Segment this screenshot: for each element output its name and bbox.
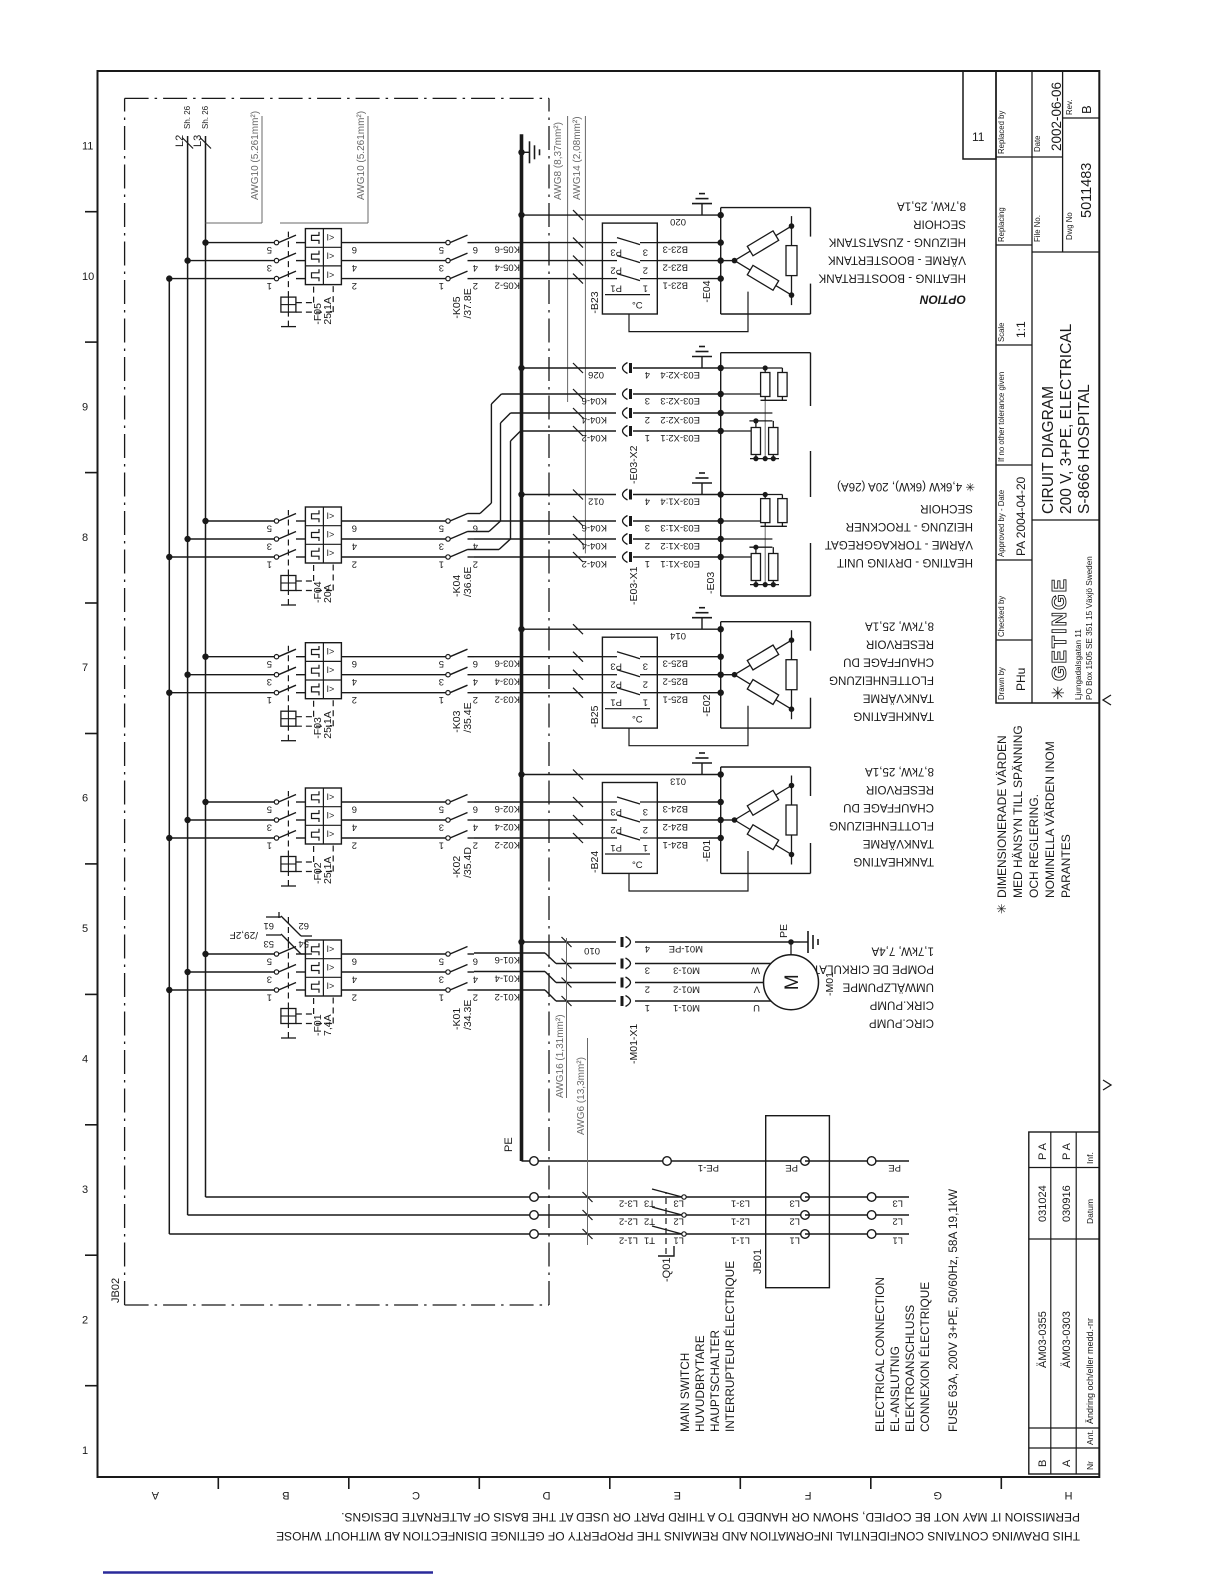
fold mark chevron lower-right [1103,695,1111,705]
wires breaker to contactor K03 [341,657,446,693]
revision table outline [1029,1132,1100,1474]
svg-text:/36.6E: /36.6E [462,567,474,597]
breaker F02 overload block [305,788,341,844]
wire label AWG6 with leader [576,1038,588,1245]
svg-text:K02-4: K02-4 [495,821,520,832]
svg-text:Scale: Scale [997,322,1006,342]
breaker F05 output numbers 2 4 6 [352,244,357,291]
svg-text:P A: P A [1037,1142,1049,1160]
svg-text:Ant.: Ant. [1085,1430,1095,1445]
svg-text:✳ 4,6kW (6kW), 20A (26A): ✳ 4,6kW (6kW), 20A (26A) [837,480,975,493]
svg-text:PA 2004-04-20: PA 2004-04-20 [1014,477,1028,556]
contactor K03 contacts [446,649,474,695]
svg-text:3: 3 [439,676,444,687]
svg-text:1: 1 [439,992,444,1003]
svg-text:E03-X1:2: E03-X1:2 [660,540,700,551]
svg-text:CHAUFFAGE DU: CHAUFFAGE DU [843,801,934,814]
svg-text:Replaced by: Replaced by [997,111,1006,154]
svg-text:Ljungadalsgatan 11: Ljungadalsgatan 11 [1074,629,1083,700]
svg-text:E03-X2:3: E03-X2:3 [660,395,700,406]
svg-text:7,4A: 7,4A [322,1014,334,1036]
wire labels K03-2 -4 -6 [495,658,520,705]
svg-text:AWG14 (2,08mm²): AWG14 (2,08mm²) [572,116,583,200]
motor PE wire [635,924,800,955]
bus tap dots K03 [166,654,209,696]
label -F02 25,1A [312,857,334,884]
svg-text:K03-4: K03-4 [495,676,520,687]
svg-text:2: 2 [352,280,357,291]
svg-text:PO Box 1505 SE 351 15 Växjö Sw: PO Box 1505 SE 351 15 Växjö Sweden [1085,556,1094,700]
wires breaker to contactor K04 [341,521,446,557]
contactor K01 numbers 2 4 6 [473,956,478,1003]
svg-text:RESERVOIR: RESERVOIR [866,783,934,796]
svg-text:4: 4 [352,541,357,552]
breaker F04 overload block [305,507,341,563]
svg-text:2: 2 [352,992,357,1003]
svg-text:6: 6 [82,793,88,805]
svg-text:PE: PE [888,1162,901,1173]
svg-text:1: 1 [645,1002,650,1013]
svg-text:OPTION: OPTION [920,293,966,307]
svg-text:014: 014 [670,630,686,641]
wire labels L1-2 L2-2 L3-2 [619,1198,638,1246]
thermostat -B24 internals [602,797,657,871]
svg-text:5: 5 [267,244,272,255]
svg-text:M01-3: M01-3 [673,965,700,976]
svg-text:K01-4: K01-4 [495,973,520,984]
breaker F02 contact numbers 1 3 5 [267,804,272,851]
svg-text:P3: P3 [610,806,622,817]
svg-text:AWG10 (5.261mm²): AWG10 (5.261mm²) [356,111,367,200]
circuit breaker F04 switch contacts [274,514,305,560]
text block E02 TANKHEATING [829,620,934,723]
svg-text:S-8666 HOSPITAL: S-8666 HOSPITAL [1076,384,1093,514]
wire labels K04 at X1 [582,522,607,569]
blue scan artifact line [103,1571,433,1574]
svg-text:1: 1 [267,694,272,705]
svg-text:3: 3 [267,676,272,687]
svg-text:Dwg No: Dwg No [1065,212,1074,240]
svg-text:CONNEXION ÉLECTRIQUE: CONNEXION ÉLECTRIQUE [918,1282,932,1432]
svg-text:6: 6 [473,804,478,815]
wires M01-X1 to motor [635,964,771,1002]
wires -B25 to heater -E02 [657,657,720,705]
svg-text:1: 1 [645,558,650,569]
svg-text:030916: 030916 [1061,1185,1073,1222]
text block MAIN SWITCH [678,1261,737,1432]
svg-text:OCH REGLERING.: OCH REGLERING. [1027,794,1041,898]
svg-text:P2: P2 [610,824,622,835]
terminal on PE riser [663,1157,672,1166]
wire riser L3 [206,1196,806,1198]
svg-text:25,1A: 25,1A [322,857,334,884]
svg-text:L3: L3 [892,1198,903,1209]
text block E03 HEATING DRYING UNIT [825,480,975,569]
breaker F04 trip box [281,576,296,591]
svg-text:B25-1: B25-1 [663,694,688,705]
svg-text:3: 3 [439,262,444,273]
earth symbol on wire 026 [701,357,703,369]
bus L3 [205,136,207,1197]
heater -E02 delta resistors [721,630,797,719]
svg-text:CIRK.PUMP: CIRK.PUMP [869,999,934,1012]
svg-text:-B24: -B24 [589,851,601,873]
svg-text:GETINGE: GETINGE [1049,577,1071,681]
svg-text:MED HÄNSYN TILL SPÄNNING: MED HÄNSYN TILL SPÄNNING [1011,725,1025,898]
svg-text:Sh. 26: Sh. 26 [183,105,192,129]
svg-text:5: 5 [439,956,444,967]
breaker F05 contact numbers 1 3 5 [267,244,272,291]
svg-text:K05-6: K05-6 [495,244,520,255]
svg-text:E: E [674,1489,681,1501]
svg-text:4: 4 [352,676,357,687]
wires breaker to contactor K02 [341,802,446,838]
heater -E02 enclosure [721,622,811,728]
label -F04 20A [312,581,334,603]
heater -E04 enclosure [721,208,811,314]
svg-text:I>: I> [327,944,335,954]
svg-text:L1: L1 [789,1235,800,1246]
svg-text:10: 10 [82,271,94,283]
svg-text:2002-06-06: 2002-06-06 [1049,82,1064,151]
svg-text:4: 4 [473,262,478,273]
svg-text:✳: ✳ [1049,686,1068,700]
svg-text:CIRC.PUMP: CIRC.PUMP [869,1017,934,1030]
svg-text:P1: P1 [610,697,622,708]
svg-text:I>: I> [327,511,335,521]
svg-text:2: 2 [352,559,357,570]
circuit breaker F02 switch contacts [274,795,305,841]
svg-text:TANKHEATING: TANKHEATING [853,855,934,868]
wire labels K02-2 -4 -6 [495,803,520,850]
title text CIRUIT DIAGRAM [1040,323,1093,514]
svg-text:B: B [282,1489,289,1501]
label -K04 /36.6E [451,567,474,597]
sheet number cell [963,71,996,159]
svg-text:K04-4: K04-4 [582,540,607,551]
svg-text:AWG10 (5.261mm²): AWG10 (5.261mm²) [250,111,261,200]
label -F01 7,4A [312,1014,334,1036]
JB01 terminals L1 L2 L3 PE [785,1157,809,1246]
svg-text:3: 3 [439,541,444,552]
svg-text:B23-3: B23-3 [663,244,688,255]
svg-text:HEATING - BOOSTERTANK: HEATING - BOOSTERTANK [818,272,966,285]
svg-text:PARANTES: PARANTES [1059,834,1073,898]
breaker F05 trip linkage dashed [281,232,333,327]
svg-text:11: 11 [972,130,985,144]
bus tap dots K01 [166,951,209,993]
breaker F03 output numbers 2 4 6 [352,658,357,705]
svg-text:A: A [151,1489,159,1501]
svg-text:K01-2: K01-2 [495,991,520,1002]
svg-text:20A: 20A [322,584,334,603]
svg-text:2: 2 [643,679,648,690]
svg-text:5: 5 [267,523,272,534]
svg-text:FUSE 63A, 200V 3+PE, 50/60Hz,: FUSE 63A, 200V 3+PE, 50/60Hz, 58A 19,1kW [946,1188,960,1432]
junction box JB02 dash-dot boundary [125,98,549,1305]
PE wire 010 [518,939,616,956]
label -K05 /37.8E [451,288,474,318]
contactor K02 contacts [446,795,474,841]
svg-text:E03-X2:2: E03-X2:2 [660,414,700,425]
wire labels K05-2 -4 -6 [495,244,520,291]
breaker F01 contact numbers 1 3 5 [267,956,272,1003]
svg-text:AWG8 (8,37mm²): AWG8 (8,37mm²) [553,122,564,200]
label -K02 /35.4D [451,847,474,878]
svg-text:HEATING - DRYING UNIT: HEATING - DRYING UNIT [837,556,973,569]
svg-text:25,1A: 25,1A [322,297,334,324]
svg-text:T2: T2 [644,1216,655,1227]
svg-text:3: 3 [645,395,650,406]
heater -E02 rail junction dots [718,626,724,696]
svg-text:2: 2 [645,540,650,551]
contactor K03 numbers 2 4 6 [473,658,478,705]
svg-text:B: B [1079,105,1094,114]
svg-text:1: 1 [643,697,648,708]
wires bus to breaker F04 [169,521,274,557]
svg-text:P3: P3 [610,661,622,672]
svg-text:L2-2: L2-2 [619,1216,638,1227]
earth symbol on wire 012 [701,483,703,495]
heater E03 enclosure [721,353,811,596]
breaker F01 trip box [281,1009,296,1024]
Q01 terminal labels T1 T2 T3 [644,1198,655,1246]
svg-text:HEIZUNG - TROCKNER: HEIZUNG - TROCKNER [846,520,973,533]
svg-text:Nr: Nr [1085,1461,1095,1470]
svg-text:9: 9 [82,401,88,413]
svg-text:F: F [805,1489,812,1501]
svg-text:CHAUFFAGE DU: CHAUFFAGE DU [843,656,934,669]
frame row ticks left edge [218,1477,1001,1489]
thermostat -B25 capillary line [629,706,748,746]
svg-text:ELECTRICAL CONNECTION: ELECTRICAL CONNECTION [873,1277,887,1432]
svg-text:2: 2 [643,824,648,835]
svg-text:11: 11 [82,140,93,152]
svg-text:5: 5 [439,523,444,534]
svg-text:I>: I> [327,647,335,657]
svg-text:1:1: 1:1 [1014,321,1028,338]
text block E04 OPTION HEATING BOOSTERTANK [818,200,966,307]
svg-text:3: 3 [643,661,648,672]
svg-text:B23-1: B23-1 [663,280,688,291]
terminal strip E03-X1 connectors [623,489,651,569]
svg-text:I>: I> [327,792,335,802]
breaker F03 contact numbers 1 3 5 [267,658,272,705]
svg-text:Inf.: Inf. [1085,1152,1095,1164]
svg-text:MAIN SWITCH: MAIN SWITCH [678,1353,692,1432]
svg-text:6: 6 [473,658,478,669]
breaker F01 output numbers 2 4 6 [352,956,357,1003]
breaker F01 trip linkage dashed [281,943,333,1038]
supply wire tails below JB01 [805,1157,909,1246]
wires K01 to M01-X1 with jogs [474,937,616,1006]
title block header labels [997,100,1074,700]
svg-text:B23-2: B23-2 [663,262,688,273]
off-sheet marker L2 Sh.26 [174,105,193,148]
earth symbol on wire 020 [701,204,703,216]
svg-text:L3: L3 [789,1198,800,1209]
title block values [1014,82,1095,691]
svg-text:5: 5 [267,956,272,967]
svg-text:PE: PE [778,924,790,938]
contactor K05 numbers 2 4 6 [473,244,478,291]
svg-text:4: 4 [352,822,357,833]
wires breaker to contactor K01 [341,954,446,990]
svg-text:1: 1 [439,840,444,851]
svg-text:8,7kW, 25,1A: 8,7kW, 25,1A [865,620,934,633]
svg-text:I>: I> [327,251,335,261]
svg-text:ÄM03-0303: ÄM03-0303 [1061,1311,1073,1368]
svg-text:E03-X1:4: E03-X1:4 [660,496,700,507]
svg-text:-M01: -M01 [824,972,836,996]
svg-text:G: G [933,1489,942,1501]
svg-text:Ändring och/eller medd.-nr: Ändring och/eller medd.-nr [1085,1318,1095,1424]
svg-text:B: B [1037,1460,1049,1467]
contactor K05 numbers 1 3 5 [439,244,444,291]
svg-text:6: 6 [352,804,357,815]
thermostat -B23 capillary line [629,292,748,332]
JB02 wall terminals on risers [530,1157,539,1239]
svg-text:B24-2: B24-2 [663,821,688,832]
thermostat -B25 internals [602,652,657,726]
revision row A [1061,1142,1073,1467]
svg-text:-E04: -E04 [701,280,713,302]
circuit breaker F01 switch contacts [274,947,305,993]
svg-text:P1: P1 [610,842,622,853]
svg-text:Sh. 26: Sh. 26 [201,105,210,129]
svg-text:013: 013 [670,776,686,787]
svg-text:61: 61 [263,920,274,931]
svg-text:-E01: -E01 [701,840,713,862]
svg-text:AWG6 (13,3mm²): AWG6 (13,3mm²) [576,1057,587,1135]
text block ELECTRICAL CONNECTION [873,1277,932,1432]
svg-text:4: 4 [473,974,478,985]
breaker F04 contact numbers 1 3 5 [267,523,272,570]
svg-text:K05-4: K05-4 [495,262,520,273]
svg-text:UMWÄLZPUMPE: UMWÄLZPUMPE [842,981,934,994]
svg-text:1: 1 [645,432,650,443]
slashes on risers at AWG6 leader [583,1192,593,1239]
svg-text:-E02: -E02 [701,694,713,716]
breaker F01 overload block [305,940,341,996]
svg-text:V: V [753,984,760,995]
svg-text:M01-2: M01-2 [673,984,700,995]
svg-text:W: W [751,965,760,976]
svg-text:010: 010 [584,945,600,956]
svg-text:3: 3 [267,541,272,552]
motor M01 circle [764,955,819,1010]
svg-text:4: 4 [352,262,357,273]
svg-text:PHu: PHu [1014,668,1028,691]
PE wire 013 [522,770,721,787]
svg-text:HEIZUNG - ZUSATSTANK: HEIZUNG - ZUSATSTANK [828,236,966,249]
svg-text:L3: L3 [673,1198,684,1209]
svg-text:TANKVÄRME: TANKVÄRME [862,692,934,705]
svg-text:B24-3: B24-3 [663,803,688,814]
svg-text:VÄRME - TORKAGGREGAT: VÄRME - TORKAGGREGAT [825,538,973,551]
svg-text:I>: I> [327,963,335,973]
frame column numbers 1-11 [82,140,94,1457]
heater E03 resistor bank X2 half [721,365,787,461]
svg-text:2: 2 [82,1315,88,1327]
svg-text:3: 3 [439,822,444,833]
terminal strip M01-X1 connectors [622,937,650,1014]
svg-text:JB01: JB01 [752,1249,764,1274]
wires terminals into heater E03 [633,368,721,557]
bus L1 [168,279,170,1234]
svg-text:Approved by - Date: Approved by - Date [997,490,1006,557]
breaker F02 trip box [281,857,296,872]
breaker F02 trip linkage dashed [281,791,333,886]
svg-text:Rev.: Rev. [1065,100,1074,115]
svg-text:200 V, 3+PE, ELECTRICAL: 200 V, 3+PE, ELECTRICAL [1058,323,1075,514]
svg-text:3: 3 [643,806,648,817]
svg-text:T3: T3 [644,1198,655,1209]
svg-text:K02-6: K02-6 [495,803,520,814]
contactor K04 numbers 2 4 6 [473,523,478,570]
fold mark chevron lower-left [1103,1080,1111,1090]
svg-text:7: 7 [82,662,88,674]
svg-text:026: 026 [588,369,604,380]
thermostat -B24 box [602,783,657,874]
svg-text:25,1A: 25,1A [322,711,334,738]
svg-text:1: 1 [439,280,444,291]
svg-text:P A: P A [1061,1142,1073,1160]
svg-text:B25-2: B25-2 [663,676,688,687]
svg-text:PE: PE [785,1162,798,1173]
bus tap dots K02 [166,799,209,841]
svg-text:54: 54 [298,938,309,949]
svg-text:4: 4 [352,974,357,985]
terminal labels E03-X1:1-4 [660,496,700,570]
text block E01 TANKHEATING [829,765,934,868]
wire labels K04 at X2 [582,395,607,443]
svg-text:EL-ANSLUTNIG: EL-ANSLUTNIG [888,1346,902,1432]
breaker F04 output numbers 2 4 6 [352,523,357,570]
svg-text:K01-6: K01-6 [495,954,520,965]
svg-text:3: 3 [439,974,444,985]
PE wire 020 [522,210,721,227]
svg-text:2: 2 [352,840,357,851]
svg-text:K04-2: K04-2 [582,558,607,569]
svg-text:/35.4E: /35.4E [462,702,474,732]
wire label AWG8 with leader [553,116,568,402]
svg-text:1: 1 [643,842,648,853]
motor terminal labels U V W [751,965,760,1014]
wires breaker to contactor K05 [341,243,446,279]
label -K01 /34.3E [451,1000,474,1030]
terminal labels E03-X2:1-4 [660,369,700,443]
svg-text:E03-X2:4: E03-X2:4 [660,369,700,380]
svg-text:-B23: -B23 [589,291,601,313]
svg-text:1: 1 [439,559,444,570]
earth symbol on wire 014 [701,618,703,630]
svg-text:I>: I> [327,981,335,991]
Q01 terminal labels L1 L2 L3 [673,1198,684,1246]
svg-text:✳: ✳ [995,903,1009,914]
svg-text:M: M [782,974,803,990]
svg-text:-B25: -B25 [589,705,601,727]
earth symbol at motor PE [800,941,808,943]
earth symbol at PE bus right end [518,141,539,163]
wires bus to breaker F05 [169,243,274,279]
wire labels K01-2 -4 -6 [495,954,520,1002]
svg-text:U: U [753,1002,760,1013]
svg-text:AWG16 (1,31mm²): AWG16 (1,31mm²) [555,1014,566,1098]
svg-text:6: 6 [352,523,357,534]
wires -B23 to heater -E04 [657,243,720,291]
wires bus to breaker F03 [169,657,274,693]
